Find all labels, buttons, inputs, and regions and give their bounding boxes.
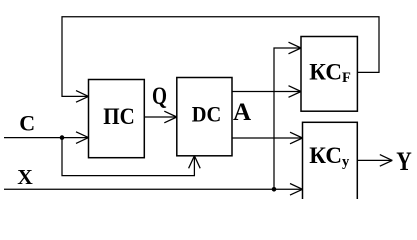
svg-text:Q: Q [152,83,167,110]
wire feedback from КСF output around top into ПС upper input [62,17,379,102]
svg-text:Y: Y [396,147,412,176]
wire A upper from DC to КСF lower input [232,86,301,98]
block ПС (register) [89,80,145,158]
svg-text:X: X [17,165,33,189]
svg-text:C: C [19,111,35,136]
wire Q from ПС to DC [144,111,177,123]
wire X riser to КСF upper input [274,42,301,189]
wire C branch to DC clock input (bottom of DC) [62,138,200,176]
svg-text:DC: DC [192,102,222,127]
wire A lower from DC to КСу upper input [232,132,303,144]
block DC (decoder) [177,78,232,156]
svg-text:ПС: ПС [103,104,135,129]
block КСу (combinational circuit У, clipped at bottom) [303,122,358,208]
svg-text:A: A [233,99,251,126]
block КСF (combinational circuit F) [301,37,357,112]
wire C input into ПС lower input [4,132,89,144]
wire Y output from КСу [357,155,392,167]
node X junction [272,187,277,192]
node C junction [60,135,65,140]
wire X input into КСу lower input [4,184,303,196]
